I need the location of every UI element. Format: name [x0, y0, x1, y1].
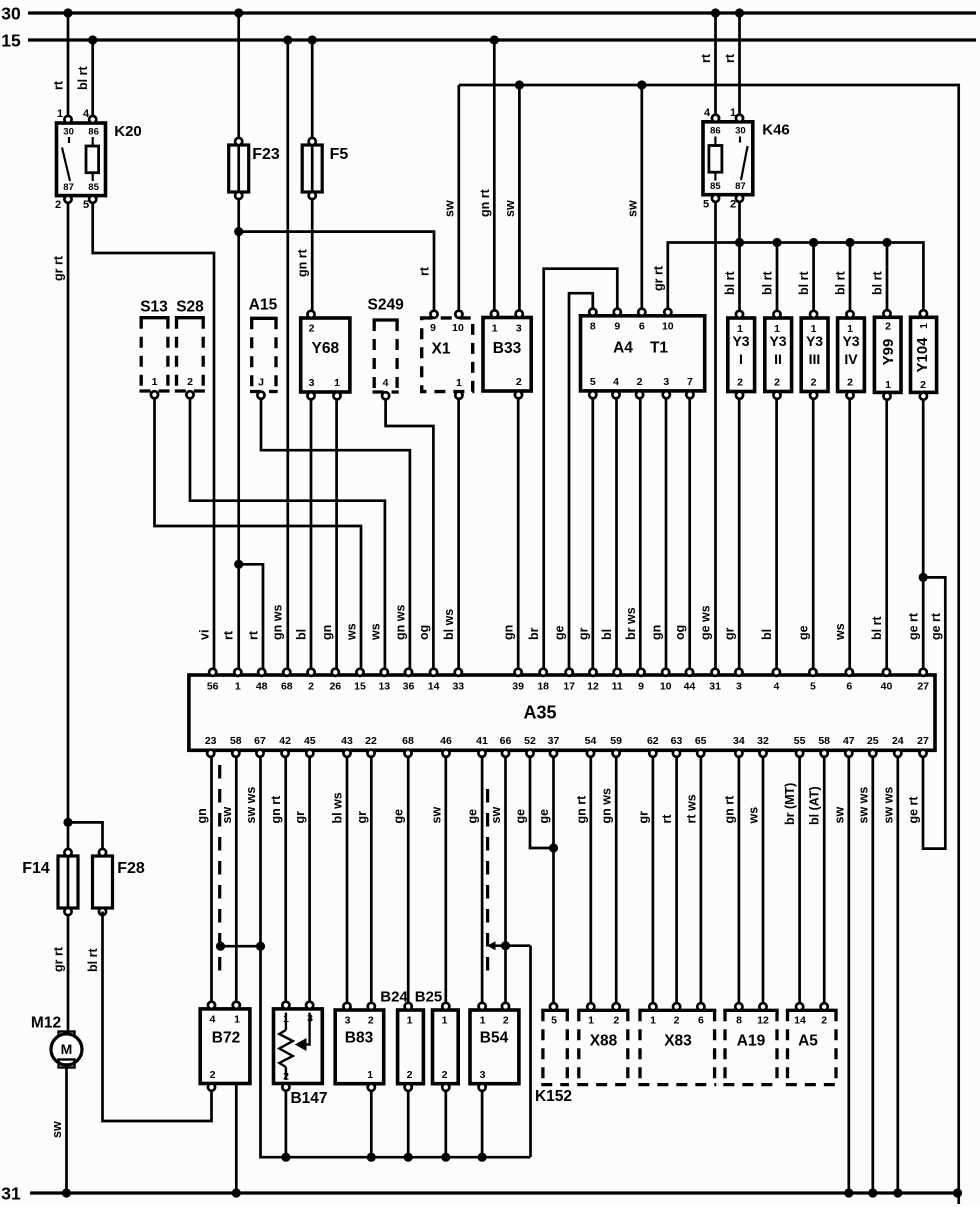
svg-text:bl rt: bl rt	[76, 66, 90, 90]
wire bl rt to Y3-III	[812, 243, 815, 314]
wire gn ws: A35 pin59 to X88 pin2	[615, 758, 618, 1006]
B147 wiper arrow	[306, 1013, 310, 1045]
wire bl: Y3-II pin2 to A35 pin4	[775, 399, 778, 671]
wire br (MT): A35 pin55 to A5 pin14	[798, 758, 801, 1006]
svg-text:2: 2	[210, 1069, 216, 1081]
wire bl rt to Y99	[886, 243, 889, 314]
svg-text:ge rt: ge rt	[907, 796, 921, 824]
svg-text:3: 3	[480, 1069, 486, 1081]
svg-text:ge: ge	[514, 809, 528, 824]
svg-text:F28: F28	[117, 860, 145, 877]
svg-text:sw ws: sw ws	[856, 787, 870, 824]
svg-text:1: 1	[918, 323, 930, 329]
svg-text:55: 55	[794, 735, 806, 747]
svg-text:bl (AT): bl (AT)	[808, 786, 822, 825]
svg-text:B33: B33	[493, 340, 522, 357]
wire gn rt: A35 pin54 to X88 pin1	[589, 758, 592, 1006]
wire ws: Y3-IV pin2 to A35 pin6	[848, 399, 851, 671]
svg-text:59: 59	[610, 735, 622, 747]
svg-text:bl rt: bl rt	[797, 271, 811, 295]
svg-text:1: 1	[456, 377, 462, 389]
wire gn: T1 pin3 to A35 pin10	[665, 398, 668, 671]
wire sw: M12 to bus31	[65, 1068, 68, 1194]
svg-text:Y3: Y3	[769, 333, 786, 349]
svg-text:1: 1	[737, 323, 743, 335]
svg-text:2: 2	[407, 1069, 413, 1081]
svg-text:B24: B24	[380, 988, 408, 1005]
wire bl: T1 pin4 to A35 pin11	[615, 398, 618, 671]
bus line 15	[28, 38, 976, 41]
svg-text:III: III	[809, 351, 821, 367]
svg-text:85: 85	[88, 182, 99, 193]
shield link B54 to ground drop	[490, 944, 531, 947]
svg-text:X83: X83	[664, 1033, 692, 1050]
svg-text:B83: B83	[345, 1030, 374, 1047]
svg-text:87: 87	[63, 182, 74, 193]
svg-text:A5: A5	[798, 1033, 818, 1050]
svg-text:ge rt: ge rt	[929, 612, 943, 640]
fuse F28	[93, 856, 113, 908]
svg-text:rt: rt	[699, 53, 713, 63]
svg-text:rt: rt	[660, 814, 674, 824]
svg-text:B72: B72	[212, 1030, 240, 1047]
svg-text:66: 66	[500, 735, 512, 747]
svg-text:52: 52	[524, 735, 536, 747]
svg-text:gr: gr	[723, 627, 737, 640]
relay K152	[541, 1009, 569, 1012]
svg-text:sw: sw	[625, 200, 639, 217]
svg-text:S13: S13	[140, 299, 168, 316]
svg-text:25: 25	[867, 735, 879, 747]
wire bl rt to Y3-II	[776, 243, 779, 314]
svg-text:gn rt: gn rt	[296, 248, 310, 277]
svg-text:X88: X88	[590, 1033, 618, 1050]
svg-text:B54: B54	[480, 1030, 509, 1047]
control unit A5	[786, 1009, 838, 1012]
svg-text:rt: rt	[418, 266, 432, 276]
bus line 31	[30, 1191, 962, 1194]
svg-text:sw: sw	[429, 807, 443, 824]
svg-text:10: 10	[452, 322, 464, 334]
svg-text:2: 2	[368, 1014, 374, 1026]
A35 top pins	[209, 669, 216, 676]
svg-text:og: og	[417, 625, 431, 640]
wire gr: Y3-I pin2 to A35 pin3	[738, 399, 741, 671]
wire sw: A35 pin47 to bus31	[847, 758, 850, 1194]
K46 switch contact	[739, 137, 741, 143]
wire ge: T1 pin8 to A35 pin17	[569, 293, 593, 671]
svg-text:1: 1	[57, 108, 63, 120]
wire bl: Y68 pin3 to A35 pin2	[310, 399, 313, 671]
svg-text:K46: K46	[762, 121, 790, 138]
svg-text:Y99: Y99	[880, 339, 897, 366]
svg-text:3: 3	[736, 680, 742, 692]
valve Y104	[911, 317, 937, 392]
svg-text:2: 2	[503, 1014, 509, 1026]
fuse F14	[67, 822, 70, 1034]
svg-text:1: 1	[235, 680, 241, 692]
svg-text:gr: gr	[576, 627, 590, 640]
svg-text:2: 2	[811, 376, 817, 388]
svg-text:30: 30	[1, 3, 21, 23]
svg-text:2: 2	[737, 376, 743, 388]
svg-text:sw: sw	[442, 200, 456, 217]
wire sw: A35 pin46 to B25 pin1	[444, 758, 447, 1006]
sensor B24	[398, 1010, 424, 1084]
control unit A19	[723, 1009, 778, 1012]
svg-text:S28: S28	[176, 299, 204, 316]
wire ws: A35 pin32 to A19 pin12	[762, 758, 765, 1006]
B147 resistor zigzag	[285, 1013, 287, 1030]
svg-text:2: 2	[308, 680, 314, 692]
wire bl rt: K46 pin2 to Y3-I pin1	[738, 202, 741, 313]
svg-text:10: 10	[662, 320, 674, 332]
svg-text:gn: gn	[320, 625, 334, 640]
svg-text:gn ws: gn ws	[270, 605, 284, 640]
svg-text:gr rt: gr rt	[52, 946, 66, 972]
svg-text:ws: ws	[833, 623, 847, 641]
wire br: T1 pin9 to A35 pin18	[544, 269, 618, 671]
control unit A35	[189, 675, 935, 750]
wire bl rt: F28 to B72 pin2	[103, 912, 212, 1122]
svg-text:2: 2	[821, 1014, 827, 1026]
valve Y3 I	[728, 318, 755, 392]
svg-text:8: 8	[590, 320, 596, 332]
wire ge rt: Y104 pin2 to A35 pin27 top	[922, 400, 925, 671]
svg-text:15: 15	[1, 30, 21, 50]
svg-text:5: 5	[703, 198, 709, 210]
svg-text:14: 14	[794, 1014, 806, 1026]
wire gr rt: T1 pin10 riser	[668, 243, 740, 313]
valve Y3 II	[765, 318, 792, 392]
K46 pins	[712, 115, 719, 122]
sensor B83	[335, 1010, 384, 1084]
svg-text:27: 27	[917, 735, 929, 747]
svg-text:gr: gr	[355, 811, 369, 824]
svg-text:sw: sw	[489, 807, 503, 824]
svg-text:54: 54	[585, 735, 597, 747]
fuse F5	[311, 40, 314, 312]
svg-text:ge: ge	[466, 809, 480, 824]
svg-text:2: 2	[674, 1014, 680, 1026]
svg-text:2: 2	[55, 199, 61, 211]
wire ge rt loop to A35 pin27 bottom	[919, 573, 928, 582]
svg-text:8: 8	[736, 1014, 742, 1026]
svg-text:85: 85	[710, 181, 721, 192]
svg-text:13: 13	[378, 680, 390, 692]
K20 pins	[64, 116, 71, 123]
sensor B54	[470, 1010, 519, 1084]
wire: B25 pin2 to ground rail	[444, 1091, 447, 1158]
svg-text:1: 1	[234, 1013, 240, 1025]
svg-text:4: 4	[383, 377, 389, 389]
wire vi: K20 pin5 to A35 pin56	[93, 203, 214, 671]
ground drop wire	[529, 946, 532, 1157]
svg-text:M12: M12	[31, 1015, 61, 1032]
svg-text:S249: S249	[367, 297, 404, 314]
svg-text:bl ws: bl ws	[331, 792, 345, 823]
svg-text:31: 31	[709, 680, 721, 692]
connector S249	[373, 318, 399, 321]
svg-text:K152: K152	[535, 1088, 572, 1105]
svg-text:1: 1	[367, 1069, 373, 1081]
svg-text:sw: sw	[50, 1121, 64, 1138]
wire rt: bus30 to K46 pin1	[738, 13, 741, 119]
svg-text:2: 2	[847, 376, 853, 388]
svg-text:bl rt: bl rt	[723, 271, 737, 295]
svg-text:1: 1	[811, 323, 817, 335]
svg-text:3: 3	[309, 377, 315, 389]
svg-text:ge: ge	[537, 809, 551, 824]
svg-text:6: 6	[698, 1014, 704, 1026]
svg-text:22: 22	[365, 735, 377, 747]
wire sw ws: A35 pin24 to bus31	[896, 758, 899, 1194]
svg-text:br: br	[527, 627, 541, 640]
svg-text:1: 1	[492, 322, 498, 334]
wire gn ws: A15 pinJ to A35 pin36	[261, 399, 410, 671]
K46 coil	[709, 146, 722, 173]
wire ge: Y3-III pin2 to A35 pin5	[812, 399, 815, 671]
svg-text:bl: bl	[600, 629, 614, 640]
svg-text:gn: gn	[195, 808, 209, 823]
valve Y3 III	[801, 318, 828, 392]
svg-text:sw ws: sw ws	[881, 787, 895, 824]
svg-text:2: 2	[442, 1069, 448, 1081]
svg-text:2: 2	[613, 1014, 619, 1026]
svg-text:39: 39	[512, 680, 524, 692]
wire ge: A35 pin41 to B54 pin1	[481, 758, 484, 1006]
svg-text:ws: ws	[368, 623, 382, 641]
svg-text:rt ws: rt ws	[684, 794, 698, 823]
svg-text:58: 58	[818, 735, 830, 747]
connector S13	[140, 316, 170, 319]
wire sw ws: A35 pin25 to bus31	[871, 758, 874, 1194]
svg-text:B147: B147	[290, 1090, 327, 1107]
wire rail to Y valves	[740, 243, 924, 314]
wire rt branch to X1 pin9	[234, 227, 243, 236]
svg-text:rt: rt	[52, 80, 66, 90]
svg-text:F14: F14	[22, 860, 50, 877]
svg-text:2: 2	[187, 376, 193, 388]
wire: B54 pin3 to ground rail	[481, 1091, 484, 1158]
svg-text:ws: ws	[747, 807, 761, 825]
wire bl rt to Y3-IV	[849, 243, 852, 314]
wire ws: S28 pin2 to A35 pin13	[190, 398, 385, 671]
svg-text:sw: sw	[220, 807, 234, 824]
wire ge: A35 pin68 to B24 pin1	[407, 758, 410, 1006]
wire gn: Y68 pin1 to A35 pin26	[335, 399, 338, 671]
svg-text:40: 40	[881, 680, 893, 692]
relay K46	[703, 122, 753, 195]
svg-text:67: 67	[254, 735, 266, 747]
svg-text:3: 3	[663, 376, 669, 388]
svg-text:32: 32	[757, 735, 769, 747]
svg-text:42: 42	[279, 735, 291, 747]
svg-text:bl rt: bl rt	[834, 271, 848, 295]
svg-text:5: 5	[810, 680, 816, 692]
K20 coil	[86, 146, 99, 173]
svg-text:9: 9	[638, 680, 644, 692]
wire sw rail y85	[459, 85, 959, 1204]
control unit A4 T1	[581, 316, 705, 391]
svg-text:63: 63	[671, 735, 683, 747]
valve Y99	[874, 317, 901, 392]
ground rail	[261, 1156, 531, 1159]
svg-text:86: 86	[710, 125, 721, 136]
svg-text:9: 9	[614, 320, 620, 332]
svg-text:6: 6	[639, 320, 645, 332]
svg-text:br (MT): br (MT)	[783, 783, 797, 825]
A35 bottom pins	[207, 750, 214, 757]
wire og: T1 pin7 to A35 pin44	[688, 398, 691, 671]
wire: B72 bottom to bus31	[235, 1084, 238, 1194]
svg-text:ge: ge	[553, 625, 567, 640]
shield dashed B54	[486, 789, 489, 978]
wire og: S249 pin4 to A35 pin14	[386, 399, 434, 671]
wire ge: A35 pin52 joins pin37	[530, 758, 554, 849]
svg-text:6: 6	[846, 680, 852, 692]
svg-text:30: 30	[63, 126, 74, 137]
svg-text:bl: bl	[760, 629, 774, 640]
wire sw: to B33 pin3	[518, 85, 521, 314]
svg-text:J: J	[258, 376, 264, 388]
wire gn: B33 pin2 to A35 pin39	[517, 398, 520, 671]
svg-text:bl rt: bl rt	[761, 271, 775, 295]
connector X88	[577, 1009, 629, 1012]
wire gr rt: K20 pin2 down to F14 junction	[67, 203, 70, 823]
svg-text:2: 2	[516, 376, 522, 388]
svg-text:gn ws: gn ws	[600, 788, 614, 823]
svg-text:1: 1	[588, 1014, 594, 1026]
svg-text:1: 1	[847, 323, 853, 335]
wire gn ws: bus15 to A35 pin68	[286, 40, 289, 671]
junction to F28	[63, 818, 72, 827]
connector X1	[422, 318, 473, 392]
wire sw: to X1 pin10	[457, 85, 460, 312]
svg-text:33: 33	[452, 680, 464, 692]
svg-text:24: 24	[892, 735, 904, 747]
svg-text:14: 14	[428, 680, 440, 692]
svg-text:A19: A19	[737, 1033, 766, 1050]
svg-text:12: 12	[757, 1014, 769, 1026]
svg-text:K20: K20	[114, 123, 142, 140]
svg-text:31: 31	[1, 1183, 21, 1203]
wire gn rt: A35 pin34 to A19 pin8	[738, 758, 741, 1006]
svg-text:11: 11	[612, 680, 623, 692]
svg-text:26: 26	[329, 680, 341, 692]
svg-text:9: 9	[430, 322, 436, 334]
wire rt ws: A35 pin65 to X83 pin6	[700, 758, 703, 1006]
svg-text:5: 5	[590, 376, 596, 388]
svg-text:1: 1	[480, 1014, 486, 1026]
svg-text:1: 1	[650, 1014, 656, 1026]
wire bl ws: X1 pin1 to A35 pin33	[457, 399, 460, 671]
svg-text:gn: gn	[650, 625, 664, 640]
svg-text:T1: T1	[650, 340, 668, 357]
svg-text:gn ws: gn ws	[393, 605, 407, 640]
svg-text:4: 4	[210, 1013, 216, 1025]
wire gn rt: bus15 to B33 pin1	[493, 40, 496, 314]
svg-text:62: 62	[647, 735, 659, 747]
svg-text:3: 3	[345, 1014, 351, 1026]
svg-text:68: 68	[402, 735, 414, 747]
svg-text:II: II	[774, 351, 782, 367]
svg-text:47: 47	[843, 735, 855, 747]
svg-text:Y3: Y3	[732, 333, 749, 349]
svg-text:gn rt: gn rt	[269, 795, 283, 824]
svg-text:ge: ge	[797, 625, 811, 640]
svg-text:43: 43	[341, 735, 353, 747]
svg-text:ws: ws	[345, 623, 359, 641]
wire rt: bus30 to K20 pin1	[67, 13, 70, 120]
sensor B33	[483, 318, 531, 392]
svg-text:86: 86	[88, 126, 99, 137]
svg-text:17: 17	[563, 680, 575, 692]
svg-text:1: 1	[152, 376, 158, 388]
svg-text:gn rt: gn rt	[574, 795, 588, 824]
svg-text:36: 36	[403, 680, 415, 692]
svg-text:A4: A4	[613, 340, 633, 357]
svg-text:rt: rt	[247, 630, 261, 640]
svg-text:4: 4	[704, 107, 711, 119]
svg-text:65: 65	[695, 735, 707, 747]
wire bl ws: A35 pin43 to B83 pin3	[346, 758, 349, 1006]
wire bl rt: bus15 to K20 pin4	[91, 40, 94, 120]
svg-text:87: 87	[735, 181, 746, 192]
wire: B147 pin2 to ground rail	[285, 1091, 288, 1159]
svg-text:44: 44	[684, 680, 696, 692]
wire br ws: T1 pin2 to A35 pin9	[639, 398, 642, 671]
connector S28	[175, 316, 205, 319]
fuse F23	[237, 13, 240, 671]
svg-text:br ws: br ws	[624, 607, 638, 640]
svg-text:56: 56	[207, 680, 219, 692]
svg-text:1: 1	[407, 1014, 413, 1026]
svg-text:30: 30	[735, 125, 746, 136]
svg-text:10: 10	[660, 680, 672, 692]
svg-text:gr: gr	[293, 811, 307, 824]
connector X83	[638, 1009, 716, 1012]
svg-text:34: 34	[733, 735, 745, 747]
svg-text:bl: bl	[295, 629, 309, 640]
valve Y3 IV	[838, 318, 865, 392]
svg-text:23: 23	[205, 735, 217, 747]
wire: B83 pin1 to ground rail	[370, 1091, 373, 1158]
wire gn: A35 pin23 to B72 pin4	[210, 758, 213, 1006]
svg-text:12: 12	[587, 680, 599, 692]
svg-text:2: 2	[920, 379, 926, 391]
wire sw ws: A35 pin67 to ground rail	[259, 758, 262, 1158]
svg-text:bl rt: bl rt	[871, 271, 885, 295]
svg-text:2: 2	[774, 376, 780, 388]
svg-text:27: 27	[917, 680, 929, 692]
svg-text:Y104: Y104	[914, 337, 931, 373]
svg-text:48: 48	[256, 680, 268, 692]
wire ws: S13 pin1 to A35 pin15	[155, 398, 362, 671]
svg-text:1: 1	[442, 1014, 448, 1026]
svg-text:Y3: Y3	[806, 333, 823, 349]
svg-text:gr rt: gr rt	[52, 255, 66, 281]
svg-text:ge: ge	[392, 809, 406, 824]
svg-text:sw ws: sw ws	[244, 787, 258, 824]
svg-text:IV: IV	[844, 351, 858, 367]
wire gr: A35 pin22 to B83 pin2	[370, 758, 373, 1006]
svg-text:M: M	[61, 1041, 73, 1057]
svg-text:Y68: Y68	[312, 340, 340, 357]
svg-text:2: 2	[637, 376, 643, 388]
wire rt: bus30 to K46 pin4	[714, 13, 717, 119]
wire bl rt: Y99 pin1 to A35 pin40	[885, 400, 888, 671]
